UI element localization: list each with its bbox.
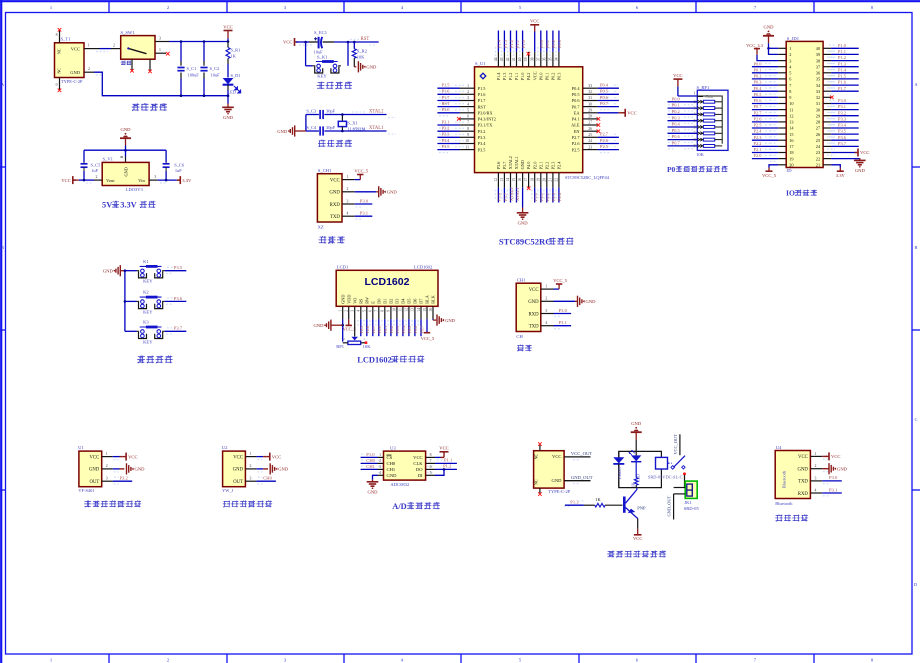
svg-text:16: 16 [429,308,433,312]
svg-text:3: 3 [347,199,349,203]
svg-text:GND: GND [837,467,848,472]
svg-text:5: 5 [467,109,469,113]
svg-text:NC: NC [534,453,539,459]
wire crystal top rail XTAL2 [306,114,319,116]
svg-text:0: 0 [56,83,58,87]
svg-text:40: 40 [816,46,820,51]
respack pin 5 arrow [697,119,703,122]
wire Vout to VCC [79,179,94,181]
svg-text:U1: U1 [78,445,84,450]
wire JD1 pin39 net P1.1 [831,53,859,55]
respack pin 9 arrow [697,144,703,147]
wire adc VCC riser [443,452,445,457]
svg-text:SRD-05: SRD-05 [684,506,700,511]
switch S_SW1 pin 1 [155,52,166,54]
svg-text:P0.0: P0.0 [538,73,543,81]
svg-text:6: 6 [467,115,469,119]
svg-text:GND: GND [387,190,398,195]
svg-text:P2.3: P2.3 [754,135,763,140]
svg-text:P0.3: P0.3 [557,39,562,48]
adc U3 left pin 1 [378,456,384,458]
wire VCC pin 38 up [534,32,536,52]
wire JD1 pin12 net P2.7 [752,115,778,117]
ground keys GND left [119,265,121,276]
svg-text:S_R1: S_R1 [231,48,241,53]
connector S_T1 VCC pin 1 [84,48,100,50]
wire JD1 pin26 net P3.5 [831,133,859,135]
svg-text:P3.2: P3.2 [120,476,129,481]
wire bt GND [822,468,829,470]
title 串口 [517,345,524,352]
wire lcd pin7 net P0.0 [378,319,380,336]
wire top pin 37 net P0.0 [540,31,542,52]
resistor S_R2 branch from RST wire [353,41,356,44]
svg-text:38: 38 [816,58,820,63]
svg-text:P3.5: P3.5 [442,144,451,149]
wire VCC to RP1 pin1 [677,79,679,87]
svg-text:P4.1: P4.1 [572,117,580,122]
svg-text:1K: 1K [595,497,601,502]
capacitor S_C1 branch wire top [180,42,182,62]
junction adc DO-DI [443,468,446,471]
terminal JK1 pin top [674,487,686,489]
svg-text:42: 42 [506,57,510,61]
svg-text:18: 18 [530,178,534,182]
mcu top pin 36 [546,52,548,67]
svg-text:C: C [915,417,918,422]
wire RP1 net P0.1 [668,107,698,109]
svg-text:P0.6: P0.6 [413,326,418,334]
svg-text:VCC: VCC [860,150,869,155]
svg-text:P2.6: P2.6 [600,138,609,143]
mcu bottom pin 16 [522,173,524,188]
svg-text:EA: EA [574,111,581,116]
svg-text:P0.0: P0.0 [754,61,763,66]
svg-text:P1.3: P1.3 [503,39,508,48]
svg-text:NC: NC [57,68,62,74]
svg-text:5V: 5V [102,201,112,210]
svg-text:28: 28 [588,115,592,119]
svg-text:7: 7 [694,132,696,136]
wire relay common to JK1 [684,475,686,488]
power VCC_5 below JD1 [766,170,773,172]
svg-text:CH0: CH0 [387,461,396,466]
mcu right pin 33 [583,87,598,89]
svg-text:VCC: VCC [223,24,232,29]
ground power circuit [222,106,234,108]
svg-text:KEY: KEY [143,339,153,344]
adc U3 right pin 6 [426,468,435,470]
svg-text:P0.3: P0.3 [754,80,763,85]
svg-text:GND: GND [631,421,642,426]
wire EA pin to VCC [598,112,619,114]
svg-text:S_K1: S_K1 [317,55,328,60]
wire adc DI joins DO [435,469,444,475]
svg-text:K3: K3 [143,319,149,324]
svg-text:P1.5: P1.5 [442,83,451,88]
wire reset key right riser [347,42,349,66]
svg-text:18: 18 [789,150,793,155]
switch S_SW1 bottom pin b [149,59,151,70]
switch S_SW1 bottom pin a [131,59,133,70]
wire JD1 pin40 net P1.0 [831,47,859,49]
junction JD1 gnd pins 1-2 [767,47,770,50]
capacitor S_C1 lead top [180,61,182,66]
resistor element 4 of RP1 [703,119,714,122]
svg-text:P3.4: P3.4 [478,141,487,146]
svg-text:U3: U3 [390,445,396,450]
mcu left pin 7 [460,124,475,126]
svg-text:8: 8 [381,310,385,312]
key K2 push button [140,296,162,298]
svg-text:P3.2: P3.2 [838,110,846,115]
svg-text:XTAL1: XTAL1 [514,156,519,169]
wire right pin 31 net P0.6 [598,100,619,102]
module U2 pin 1 [245,456,256,458]
connector S_T1 TYPE-C-2P body [55,43,85,78]
svg-text:10uF: 10uF [211,73,221,78]
svg-text:P2.1: P2.1 [754,147,762,152]
svg-text:P2.0: P2.0 [532,162,537,170]
svg-text:U4: U4 [776,445,782,450]
svg-text:GND: GND [797,468,808,473]
ground below mcu [517,212,529,214]
no-connect X mcu pin 39 [527,52,531,56]
svg-text:GND: GND [764,25,775,30]
no-connect X on S_T1 bottom pin [58,89,62,93]
svg-text:JK1: JK1 [684,500,692,505]
svg-text:9: 9 [789,95,791,100]
svg-text:4: 4 [545,321,547,325]
power 3.3V right 5v33 [179,176,181,184]
svg-text:RST: RST [478,104,486,109]
wire right pin 33 net P0.4 [598,87,619,89]
wire GND_OUT stub [573,483,580,485]
svg-text:21: 21 [816,163,820,168]
junction C6 Vin [165,179,168,182]
svg-text:29: 29 [816,113,820,118]
svg-text:1: 1 [694,92,696,96]
capacitor S_EC1 [318,37,320,49]
svg-text:P2.5: P2.5 [359,326,364,334]
capacitor S_C2 branch wire bottom [203,79,205,96]
svg-text:GND_OUT: GND_OUT [667,495,672,516]
adc U3 right pin 8 [426,456,435,458]
svg-text:3: 3 [789,58,791,63]
led D2 relay [631,455,641,461]
resistor element 7 of RP1 [703,138,714,141]
mcu right pin 23 [583,149,598,151]
svg-text:P2.4: P2.4 [754,129,763,134]
no-connect X mcu pin 28 [597,117,601,121]
wire bottom pin 22 net P2.4 [558,188,560,203]
respack pin 7 arrow [697,132,703,135]
wire CH1 TXD net P3.1 [554,325,572,327]
svg-text:VCC: VCC [552,454,561,459]
svg-text:P0.5: P0.5 [672,128,681,133]
power 3.3V below JD1 [837,170,844,172]
svg-text:P4.3/INT2: P4.3/INT2 [478,117,496,122]
svg-text:P1.5: P1.5 [478,86,486,91]
svg-text:13: 13 [411,308,415,312]
svg-text:P2.1: P2.1 [538,162,543,170]
wire CH1 GND pin [554,300,576,302]
svg-text:P4.0: P4.0 [526,162,531,170]
connector TYPE-C GND pin [564,480,590,482]
wire JD1 pin11 net P0.7 [752,109,778,111]
mcu bottom pin 22 [558,173,560,188]
svg-text:15: 15 [423,308,427,312]
svg-text:VCC: VCC [61,178,70,183]
wire RP1 net P0.3 [668,120,698,122]
svg-text:22: 22 [555,178,559,182]
svg-text:1: 1 [467,84,469,88]
svg-text:VCC: VCC [627,111,636,116]
svg-text:P0.3: P0.3 [557,73,562,81]
respack pin 3 arrow [697,107,703,110]
wire JD1 pin27 net P3.4 [831,127,859,129]
svg-text:6: 6 [369,310,373,312]
svg-text:4: 4 [814,488,816,492]
regulator S_V1 Vin pin 3 [149,179,158,181]
wire reset cap EC1 to RST [323,41,334,43]
svg-text:P3.4: P3.4 [838,123,847,128]
respack pin 6 arrow [697,126,703,129]
svg-text:NC: NC [57,48,62,54]
bt U4 pin 1 [810,455,822,457]
LED S_D1 [223,78,234,84]
LED S_D1 lead bottom [227,85,229,91]
svg-text:XZ: XZ [318,225,324,230]
svg-text:P0.1: P0.1 [383,326,388,334]
power VCC at bt [828,452,830,460]
mcu right pin 24 [583,143,598,145]
svg-text:P4.2: P4.2 [526,73,531,81]
svg-text:P0.4: P0.4 [600,83,609,88]
svg-text:P0.1: P0.1 [544,73,549,81]
wire adc net CH0 [361,462,378,464]
wire reset key left riser [305,42,307,66]
svg-text:11: 11 [465,145,469,149]
svg-text:VCC: VCC [439,446,448,451]
mcu top pin 41 [516,52,518,67]
svg-text:P3.6: P3.6 [838,135,847,140]
mcu left pin 3 [460,100,475,102]
svg-text:P1.2: P1.2 [838,55,846,60]
svg-text:P0.5: P0.5 [600,89,609,94]
capacitor S_C6 [163,163,170,165]
junction keys bus K2 [124,300,127,303]
svg-text:30: 30 [588,102,592,106]
resistor element 6 of RP1 [703,132,714,135]
wire JD1 pin8 net P0.4 [752,90,778,92]
svg-text:GND: GND [124,167,129,176]
transistor Q1 base bar [623,497,626,513]
wire T1 VCC to SW1 [100,48,112,50]
header S_JD1 pin stubs [778,47,786,49]
switch S_SW1 label 开关 [121,61,126,66]
title 复位电路 [317,82,325,90]
svg-text:8: 8 [430,453,432,457]
wire top rail SW1 pin3 to VCC stem [169,41,228,43]
svg-text:9: 9 [467,133,469,137]
mcu left pin 2 [460,93,475,95]
title 电源电路 [132,103,140,111]
svg-text:P2.7: P2.7 [600,132,609,137]
svg-text:XTAL2: XTAL2 [369,110,384,115]
svg-text:DI: DI [418,473,423,478]
svg-text:VCC: VCC [90,455,100,460]
svg-text:8: 8 [789,89,791,94]
wire VCC_OUT vertical at relay [679,434,681,455]
svg-text:2: 2 [106,464,108,468]
svg-text:P3.0: P3.0 [559,308,568,313]
svg-text:OUT: OUT [233,480,243,485]
svg-text:S_R2: S_R2 [357,48,368,53]
wire keys vertical bus [124,271,126,332]
svg-text:VCC_5: VCC_5 [421,336,435,341]
wire K2 left lead [125,300,137,302]
switch S_SW1 lever [128,48,146,53]
svg-text:30: 30 [816,107,820,112]
wire top pin 35 net P0.2 [552,31,554,52]
adc U3 left pin 2 [378,462,384,464]
wire U2 VCC [256,456,263,458]
svg-text:S_CH1: S_CH1 [318,168,332,173]
svg-text:31: 31 [588,96,592,100]
svg-text:6: 6 [694,125,696,129]
mcu top pin 43 [503,52,505,67]
svg-text:CH1: CH1 [366,464,375,469]
svg-text:4: 4 [357,310,361,312]
svg-text:P0.5: P0.5 [572,92,580,97]
key S_K1 push button [316,61,338,63]
wire keys GND stem [120,270,125,272]
svg-text:P1.0: P1.0 [520,73,525,81]
junction 5v33 gnd rail [124,149,127,152]
svg-text:28: 28 [816,120,820,125]
svg-text:1: 1 [379,453,381,457]
wire bottom pin 12 net P3.6 [497,188,499,203]
svg-text:VCC: VCC [128,454,137,459]
svg-text:D5: D5 [407,299,412,304]
svg-text:37: 37 [536,57,540,61]
diode D1 1N4007 [613,457,624,463]
wire CH1 VCC pin to VCC_5 [554,288,560,290]
wire K1 left lead [125,270,137,272]
svg-text:8: 8 [467,127,469,131]
capacitor S_C2 lead top [203,61,205,66]
svg-text:P1.7: P1.7 [478,98,487,103]
no-connect X mcu pin 27 [597,123,601,127]
svg-text:1: 1 [814,452,816,456]
svg-text:2: 2 [694,100,696,104]
svg-text:GND: GND [70,70,80,75]
wire crystal left riser [305,115,307,132]
svg-text:P0.4: P0.4 [672,122,681,127]
svg-text:GND: GND [89,468,100,473]
svg-text:VCC_5: VCC_5 [343,326,356,331]
svg-text:2: 2 [343,337,345,341]
capacitor S_C5 [81,163,88,165]
wire JD1 pin25 net P3.6 [831,139,859,141]
svg-text:GND: GND [223,115,234,120]
connector S_T1 GND pin 2 [84,71,94,73]
svg-text:6: 6 [430,465,432,469]
mcu right pin 25 [583,136,598,138]
wire left pin 9 net P3.3 [437,136,459,138]
svg-text:3.3V: 3.3V [836,173,846,178]
wire relay gnd stem [635,432,637,439]
wire crystal bottom rail XTAL1 [306,130,319,132]
wire S_CH1 TXD net P3.1 [355,215,373,217]
svg-text:D3: D3 [395,299,400,304]
border row ticks [0,166,6,168]
svg-text:7: 7 [430,459,432,463]
svg-text:S_V1: S_V1 [103,156,114,161]
svg-text:3: 3 [545,309,547,313]
resistor S_R2 lead bottom [353,58,355,67]
svg-text:S_C3: S_C3 [306,108,317,113]
svg-text:P0.0: P0.0 [539,39,544,48]
wire VCC stem [227,31,229,39]
mcu top pin 42 [510,52,512,67]
svg-text:14: 14 [417,308,421,312]
power VCC at EA pin [624,109,626,117]
svg-text:10K: 10K [357,54,365,59]
svg-text:GND: GND [368,490,379,495]
svg-text:P1.3: P1.3 [838,61,847,66]
connector S_CH1 body [317,174,342,222]
wire RP1 net P0.6 [668,139,698,141]
mcu right pin 29 [583,112,598,114]
svg-text:D7: D7 [419,298,424,304]
svg-text:XTAL1: XTAL1 [369,126,384,131]
wire U1 OUT net P3.2 [113,480,133,482]
svg-text:3.3V: 3.3V [120,201,137,210]
wire JD1 pin10 net P0.6 [752,103,778,105]
mcu left pin 6 [460,118,475,120]
svg-text:4: 4 [379,471,381,475]
svg-text:VCC_5: VCC_5 [762,173,777,178]
svg-text:5: 5 [430,471,432,475]
svg-text:NC: NC [534,479,539,485]
ground at adc U3 [367,481,379,483]
svg-text:B: B [915,245,918,250]
svg-text:VCC_5: VCC_5 [354,168,369,173]
mcu bottom pin 13 [503,173,505,188]
svg-text:1: 1 [88,44,90,48]
svg-text:D2: D2 [389,299,394,304]
wire JD1 pin23 to VCC [831,152,856,154]
wire LED to bottom rail and GND [227,90,229,104]
svg-text:P3.2: P3.2 [442,126,450,131]
svg-text:S_C2: S_C2 [210,66,220,71]
svg-text:VCC: VCC [71,47,80,52]
wire right pin 32 net P0.5 [598,93,619,95]
svg-text:3: 3 [106,477,108,481]
wire left pin 4 net RST [437,106,459,108]
connector TYPE-C bottom pin [539,488,541,493]
svg-text:S_JD1: S_JD1 [787,36,800,41]
svg-text:1: 1 [159,48,161,52]
switch S_SW1 pin 2 [111,48,121,50]
wire relay base left [565,504,584,506]
svg-text:5: 5 [789,71,791,76]
wire left pin 2 net P1.6 [437,93,459,95]
svg-text:D4: D4 [401,298,406,304]
wire T1 GND down to bottom rail [94,72,228,96]
